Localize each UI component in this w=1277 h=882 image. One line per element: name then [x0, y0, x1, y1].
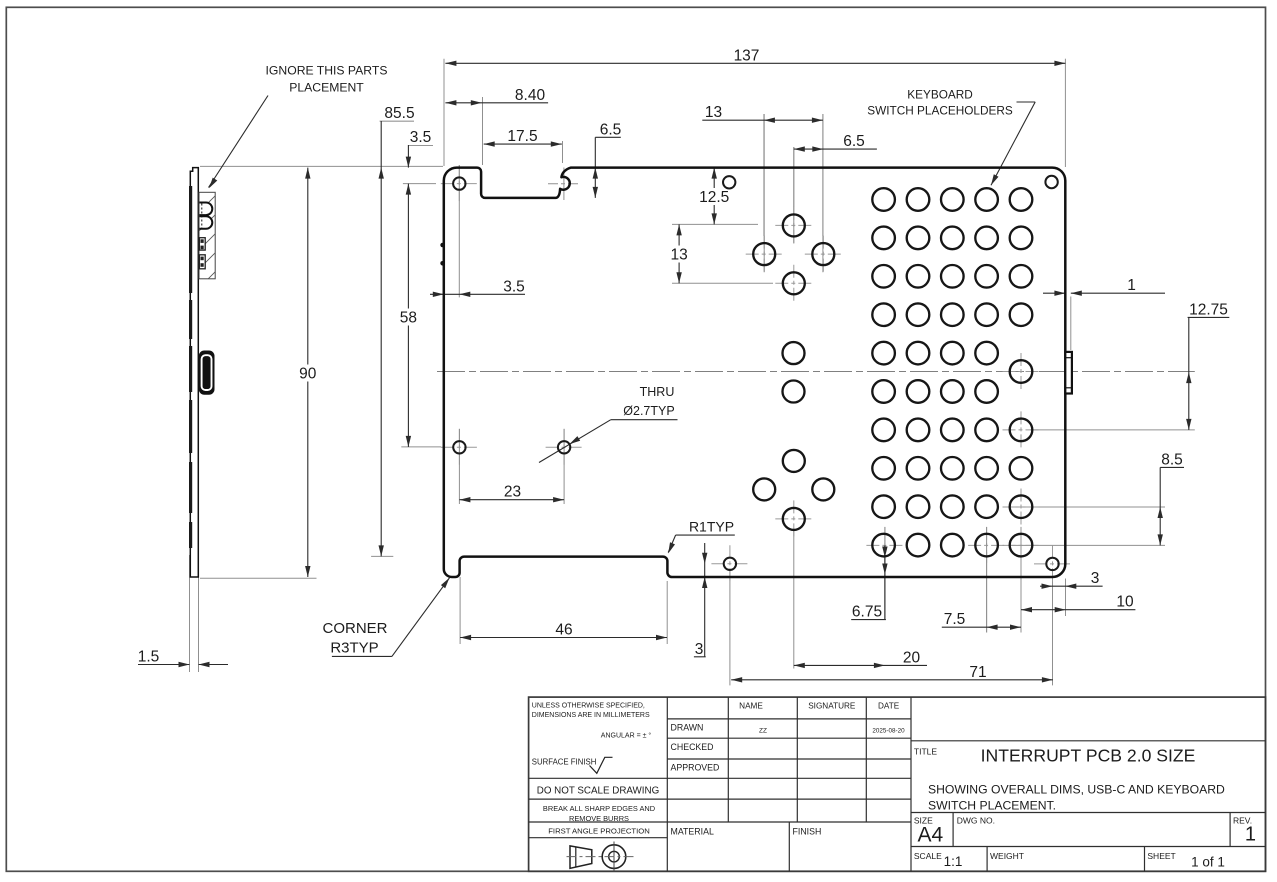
svg-text:REMOVE BURRS: REMOVE BURRS [569, 814, 629, 823]
svg-text:1: 1 [1245, 824, 1256, 846]
svg-text:Ø2.7TYP: Ø2.7TYP [623, 404, 674, 418]
svg-text:7.5: 7.5 [944, 611, 966, 628]
svg-text:FINISH: FINISH [793, 827, 822, 837]
svg-text:10: 10 [1116, 594, 1134, 611]
svg-text:SHEET: SHEET [1147, 851, 1175, 861]
svg-text:2025-08-20: 2025-08-20 [872, 728, 905, 735]
svg-text:13: 13 [670, 247, 687, 264]
svg-text:6.5: 6.5 [843, 133, 865, 150]
svg-text:SWITCH PLACEHOLDERS: SWITCH PLACEHOLDERS [867, 104, 1013, 118]
svg-text:3.5: 3.5 [410, 129, 432, 146]
svg-text:85.5: 85.5 [384, 105, 414, 122]
svg-text:6.5: 6.5 [600, 121, 622, 138]
svg-text:1 of 1: 1 of 1 [1191, 855, 1225, 870]
svg-text:R3TYP: R3TYP [330, 640, 378, 657]
svg-text:THRU: THRU [640, 385, 675, 399]
svg-text:SHOWING OVERALL DIMS, USB-C AN: SHOWING OVERALL DIMS, USB-C AND KEYBOARD [928, 783, 1225, 797]
svg-text:CORNER: CORNER [322, 620, 387, 637]
svg-text:3.5: 3.5 [503, 278, 525, 295]
svg-text:3: 3 [695, 641, 704, 658]
svg-text:ZZ: ZZ [759, 728, 767, 735]
svg-text:NAME: NAME [739, 702, 763, 711]
svg-text:1:1: 1:1 [944, 854, 963, 869]
svg-text:IGNORE THIS PARTS: IGNORE THIS PARTS [266, 64, 388, 78]
svg-text:ANGULAR = ± °: ANGULAR = ± ° [601, 732, 652, 740]
svg-text:SIGNATURE: SIGNATURE [808, 702, 856, 711]
svg-text:MATERIAL: MATERIAL [671, 827, 714, 837]
svg-text:1.5: 1.5 [138, 649, 160, 666]
svg-text:8.40: 8.40 [515, 87, 546, 104]
svg-text:CHECKED: CHECKED [671, 742, 714, 752]
svg-text:SCALE: SCALE [914, 851, 942, 861]
svg-text:13: 13 [705, 104, 722, 121]
svg-text:SURFACE FINISH: SURFACE FINISH [532, 758, 597, 767]
svg-text:46: 46 [555, 622, 572, 639]
svg-text:KEYBOARD: KEYBOARD [907, 88, 973, 102]
svg-text:12.75: 12.75 [1189, 301, 1228, 318]
svg-text:12.5: 12.5 [699, 189, 729, 206]
svg-text:90: 90 [299, 366, 317, 383]
svg-text:INTERRUPT PCB 2.0 SIZE: INTERRUPT PCB 2.0 SIZE [981, 746, 1196, 766]
svg-text:8.5: 8.5 [1161, 451, 1183, 468]
svg-text:58: 58 [400, 310, 417, 327]
svg-text:SWITCH PLACEMENT.: SWITCH PLACEMENT. [928, 799, 1056, 813]
svg-text:APPROVED: APPROVED [671, 763, 720, 773]
svg-text:FIRST ANGLE PROJECTION: FIRST ANGLE PROJECTION [548, 827, 650, 836]
svg-text:20: 20 [903, 649, 921, 666]
svg-text:DO NOT SCALE DRAWING: DO NOT SCALE DRAWING [537, 786, 659, 797]
svg-text:DRAWN: DRAWN [671, 723, 704, 733]
svg-text:3: 3 [1091, 570, 1100, 587]
svg-text:DATE: DATE [878, 702, 900, 711]
svg-text:17.5: 17.5 [507, 128, 537, 145]
svg-text:R1TYP: R1TYP [689, 519, 734, 535]
svg-text:6.75: 6.75 [852, 604, 882, 621]
svg-text:WEIGHT: WEIGHT [990, 851, 1024, 861]
svg-text:BREAK ALL SHARP EDGES AND: BREAK ALL SHARP EDGES AND [543, 804, 655, 813]
svg-text:1: 1 [1127, 277, 1136, 294]
svg-text:DIMENSIONS ARE IN MILLIMETERS: DIMENSIONS ARE IN MILLIMETERS [532, 712, 650, 719]
svg-text:23: 23 [504, 484, 521, 501]
svg-text:PLACEMENT: PLACEMENT [289, 81, 364, 95]
svg-text:TITLE: TITLE [914, 747, 937, 757]
svg-text:71: 71 [969, 664, 986, 681]
svg-text:A4: A4 [918, 824, 944, 847]
svg-text:DWG NO.: DWG NO. [957, 816, 995, 826]
svg-text:UNLESS OTHERWISE SPECIFIED,: UNLESS OTHERWISE SPECIFIED, [532, 703, 645, 710]
svg-text:137: 137 [734, 47, 760, 64]
